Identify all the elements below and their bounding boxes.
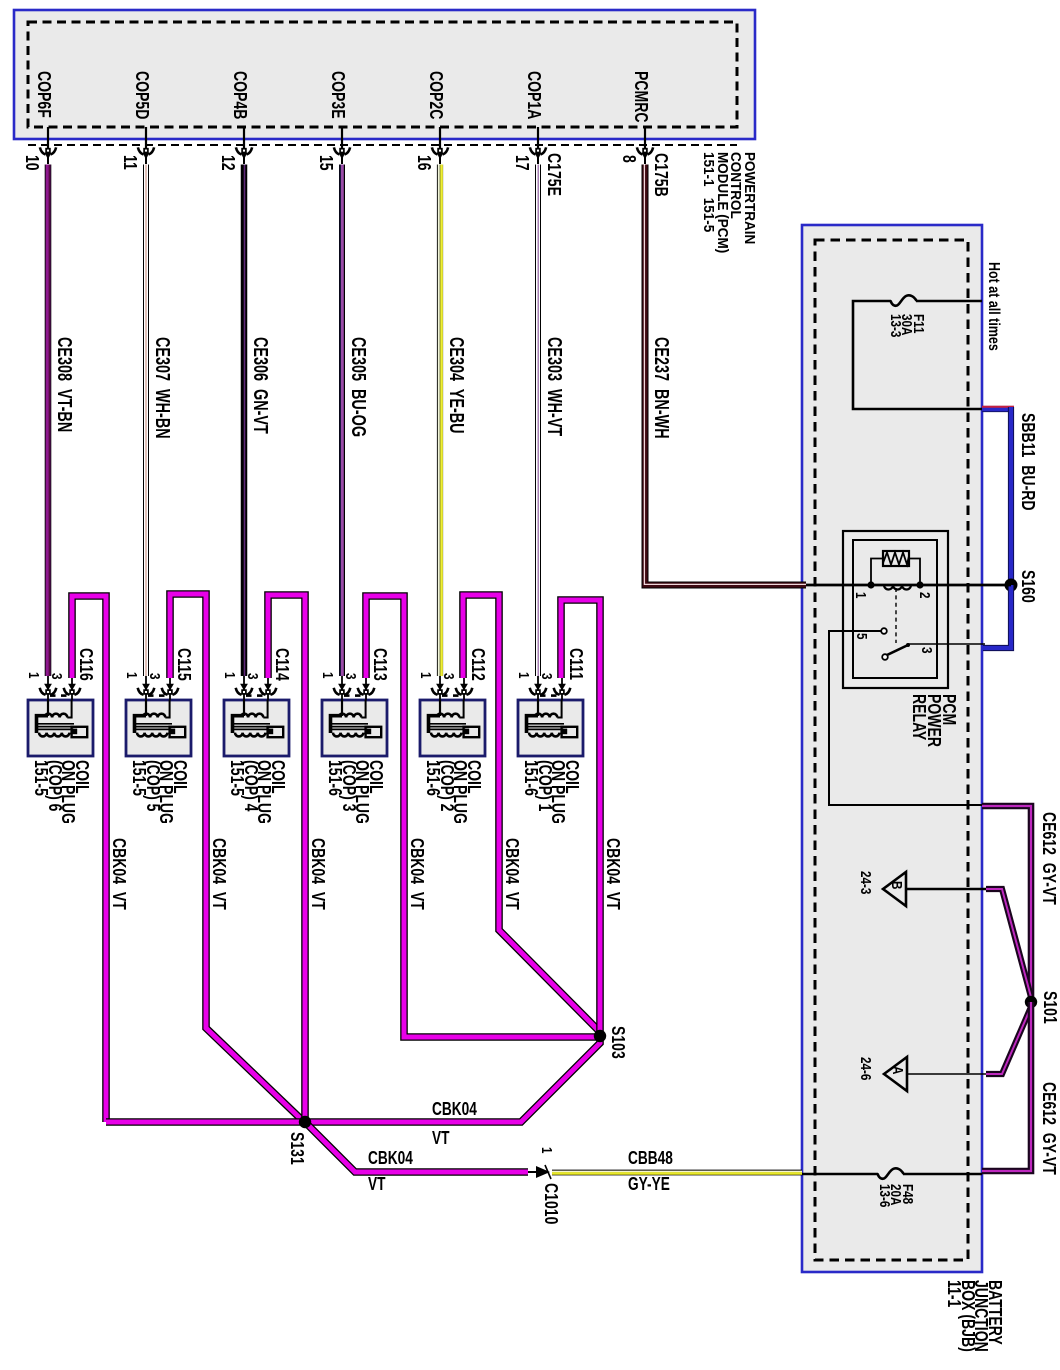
fuse F11 label	[890, 314, 925, 337]
coil 1 name	[524, 760, 578, 824]
ignition coil-on-plug 3 (connector C113)	[322, 700, 387, 756]
pin number 12	[221, 155, 235, 171]
ignition coil-on-plug 4 (connector C114)	[224, 700, 289, 756]
pin label COP2C	[429, 71, 443, 119]
wire label CBK04 VT at x=499	[505, 838, 519, 910]
splice label S131	[290, 1132, 304, 1165]
relay coil suppression resistor	[871, 551, 920, 583]
relay armature dashed link	[895, 588, 897, 643]
wire label CBK04 VT at x=206	[212, 838, 226, 910]
coil 6 pin 3 number	[50, 673, 64, 680]
coil 4 pin wires and arrows	[236, 676, 277, 700]
pin label COP4B	[233, 71, 247, 119]
coil 3 name	[328, 760, 382, 824]
coil 4 pin 3 number	[246, 673, 260, 680]
connector label C116	[79, 648, 93, 681]
PCM pin COP6F stub	[47, 127, 49, 164]
splice S103	[594, 1030, 606, 1042]
wire CE237 BN-WH from PCMRC to relay	[644, 165, 806, 586]
splice label S103	[611, 1026, 625, 1059]
PCM name	[702, 152, 756, 253]
connector C175 arrow at pin 11	[138, 147, 154, 159]
pin label PCMRC	[634, 71, 648, 122]
pin label COP5D	[135, 71, 149, 119]
ignition coil-on-plug 6 (connector C116)	[28, 700, 93, 756]
splice label S160	[1021, 570, 1035, 603]
coil 4 name	[230, 760, 284, 824]
connector label C113	[373, 648, 387, 681]
pin number 11	[123, 155, 137, 170]
wire CBK04 VT coil 1 hairpin	[561, 600, 600, 1036]
coil 6 name	[34, 760, 88, 824]
diode B 24-3	[883, 872, 988, 906]
ignition coil-on-plug 2 (connector C112)	[420, 700, 485, 756]
coil 1 pin 1 number	[517, 672, 531, 679]
wire SBB11 from S160 to relay pin 3	[983, 585, 1011, 648]
wire label SBB11 BU-RD	[1021, 413, 1035, 511]
wire from diode A to S101	[986, 1007, 1031, 1074]
pin label COP3E	[331, 71, 345, 119]
wire label CE308 VT-BN	[57, 337, 71, 432]
relay pin 5 number	[855, 633, 869, 640]
PCM pin COP5D stub	[145, 127, 147, 164]
coil 5 pin 1 number	[125, 672, 139, 679]
diode B letter	[890, 881, 904, 889]
coil 2 pin 1 number	[419, 672, 433, 679]
connector C175 dashed mating line below PCM	[28, 144, 737, 146]
coil 1 pin 3 number	[540, 673, 554, 680]
wire label VT (S103-S131 bus)	[432, 1132, 449, 1146]
splice S101	[1025, 996, 1037, 1008]
wire label CE304 YE-BU	[449, 337, 463, 434]
connector label C112	[471, 648, 485, 681]
coil 1 pin wires and arrows	[530, 676, 571, 700]
relay pin 5 wire	[829, 628, 985, 805]
coil 5 pin wires and arrows	[138, 676, 179, 700]
coil 3 pin 3 number	[344, 673, 358, 680]
wire CBB48 GY-YE	[552, 1172, 802, 1174]
coil 5 pin 3 number	[148, 673, 162, 680]
connector label C175B	[654, 153, 668, 197]
wire label CE307 WH-BN	[155, 337, 169, 439]
wire CE612 GY-VT from relay pin 5 down right side	[982, 806, 1031, 999]
battery junction box (BJB) block	[802, 225, 982, 1272]
fuse F48 element symbol	[878, 1168, 904, 1178]
wire label CE303 WH-VT	[547, 337, 561, 436]
wire CE306 GN-VT vertical	[241, 165, 248, 677]
BJB name	[947, 1280, 1001, 1352]
pin number 15	[319, 155, 333, 171]
coil 3 pin wires and arrows	[334, 676, 375, 700]
wire label CE305 BU-OG	[351, 337, 365, 437]
coil 2 pin 3 number	[442, 673, 456, 680]
splice label S101	[1043, 991, 1057, 1024]
wire label CBK04 (S103-S131 bus)	[432, 1103, 477, 1117]
PCM pin COP3E stub	[341, 127, 343, 164]
wire label CBB48	[628, 1152, 673, 1166]
connector label C111	[569, 648, 583, 680]
wire CBK04 VT bus S103 to S131 to coil 6	[106, 1036, 600, 1122]
pin label COP1A	[527, 71, 541, 119]
diode A 24-6	[884, 1057, 988, 1091]
fuse F11 element symbol	[891, 295, 917, 305]
wire label CE237 BN-WH	[654, 337, 668, 439]
splice S131	[299, 1116, 311, 1128]
wire label CBK04 VT at x=106	[112, 838, 126, 910]
pin number 10	[25, 155, 39, 171]
wire CBK04 VT coil 2 hairpin	[463, 595, 599, 1031]
connector C175 arrow at pin 8	[637, 147, 653, 159]
relay name	[911, 694, 956, 747]
connector C175 arrow at pin 10	[40, 147, 56, 159]
relay switch contact arm	[882, 643, 985, 660]
diode A label 24-6	[859, 1057, 873, 1080]
fuse F48 label	[879, 1184, 914, 1207]
wire CBK04 VT coil 6 hairpin	[72, 596, 106, 1122]
wire label CBK04 VT at x=305	[311, 838, 325, 910]
C1010 pin 1 number	[540, 1147, 554, 1154]
wire CBK04 VT coil 5 hairpin	[170, 594, 303, 1121]
wire from diode B to S101	[986, 889, 1031, 997]
connector label C114	[275, 648, 289, 681]
fuse F48 20A circuit line	[802, 1173, 982, 1176]
coil 4 pin 1 number	[223, 672, 237, 679]
coil 2 pin wires and arrows	[432, 676, 473, 700]
coil 5 name	[132, 760, 186, 824]
coil 3 pin 1 number	[321, 672, 335, 679]
wire CBK04 VT coil 4 hairpin	[268, 595, 305, 1122]
wire CE612 GY-VT from S101 to fuse F48	[982, 1002, 1031, 1171]
powertrain control module (PCM) U-block	[14, 10, 755, 139]
PCM pin COP2C stub	[439, 127, 441, 164]
splice S160	[1005, 579, 1018, 592]
connector C175 arrow at pin 12	[236, 147, 252, 159]
ignition coil-on-plug 5 (connector C115)	[126, 700, 191, 756]
wire CE308 VT-BN vertical	[48, 165, 49, 677]
wire label CE306 GN-VT	[253, 337, 267, 434]
connector label C175E	[547, 153, 561, 196]
wire label CBK04 (S131-C1010)	[368, 1152, 413, 1166]
wire CBK04 VT coil 3 hairpin	[366, 596, 598, 1037]
connector label C1010	[544, 1183, 558, 1224]
pin number 17	[515, 155, 529, 171]
wire CE305 BU-OG vertical	[340, 165, 342, 677]
wire SBB11 BU-RD fuse output	[982, 407, 1014, 585]
wire label CBK04 VT at x=600	[606, 838, 620, 910]
connector C175 arrow at pin 15	[334, 147, 350, 159]
pin number 8	[622, 155, 636, 163]
wire label VT (S131-C1010)	[368, 1178, 385, 1192]
diode B label 24-3	[859, 871, 873, 894]
relay coil winding between pins 1 and 2	[806, 581, 1011, 589]
connector label C115	[177, 648, 191, 681]
PCM power relay box	[843, 531, 948, 688]
PCM pin COP1A stub	[537, 127, 539, 164]
connector C1010 arrow	[528, 1165, 551, 1179]
wire label GY-YE	[628, 1178, 670, 1192]
hot at all times	[987, 262, 1001, 351]
relay pin 1 number	[854, 592, 868, 599]
coil 6 pin wires and arrows	[40, 676, 81, 700]
fuse F11 30A circuit lines	[853, 301, 982, 409]
wire CE304 YE-BU vertical	[439, 165, 442, 677]
wire CE303 WH-VT vertical	[535, 165, 541, 677]
PCM pin COP4B stub	[243, 127, 245, 164]
pin label COP6F	[37, 71, 51, 118]
relay pin 2 number	[918, 592, 932, 599]
connector C175 arrow at pin 16	[432, 147, 448, 159]
connector C175 arrow at pin 17	[530, 147, 546, 159]
coil 6 pin 1 number	[27, 672, 41, 679]
wire CBK04 VT from S131 to C1010	[305, 1122, 528, 1172]
wire label CE612 GY-VT (lower)	[1042, 1082, 1056, 1175]
wire label CE612 GY-VT (upper)	[1042, 812, 1056, 905]
PCM pin PCMRC stub	[644, 127, 646, 164]
wire CE307 WH-BN vertical	[143, 165, 149, 677]
diode A letter	[891, 1066, 905, 1074]
wire label CBK04 VT at x=404	[410, 838, 424, 910]
relay pin 3 number	[920, 647, 934, 654]
coil 2 name	[426, 760, 480, 824]
ignition coil-on-plug 1 (connector C111)	[518, 700, 583, 756]
pin number 16	[417, 155, 431, 171]
